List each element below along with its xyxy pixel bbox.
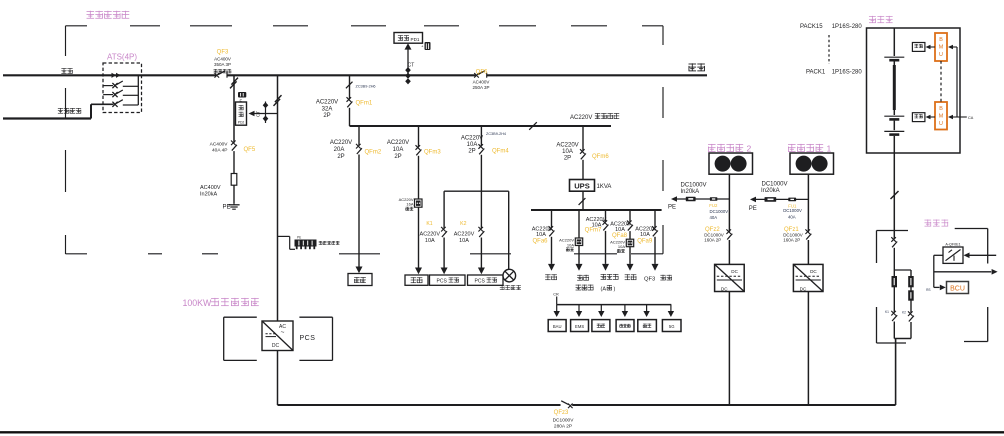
svg-text:F: F (240, 99, 243, 104)
svg-text:K2: K2 (902, 311, 906, 315)
svg-text:2: 2 (747, 143, 752, 153)
svg-text:AC400V: AC400V (210, 142, 229, 148)
svg-text:U: U (939, 52, 943, 58)
svg-text:A-QF0E1: A-QF0E1 (945, 242, 960, 246)
svg-text:AC220V: AC220V (461, 135, 483, 141)
svg-text:DC: DC (272, 343, 280, 349)
svg-text:10A: 10A (562, 149, 573, 155)
svg-text:QFm1: QFm1 (356, 101, 373, 107)
svg-text:RS: RS (926, 288, 930, 292)
svg-text:DC1000V: DC1000V (762, 182, 788, 188)
svg-text:DC1000V: DC1000V (553, 417, 575, 423)
svg-text:QF6: QF6 (476, 69, 488, 75)
svg-text:10A: 10A (393, 147, 404, 153)
svg-text:DC: DC (800, 286, 807, 291)
svg-text:40A 4P: 40A 4P (212, 147, 227, 153)
svg-text:QFm2: QFm2 (365, 149, 382, 155)
svg-text:10A: 10A (425, 238, 435, 244)
svg-text:1P16S-280: 1P16S-280 (832, 24, 863, 30)
svg-text:QFa8: QFa8 (612, 233, 628, 239)
svg-text:DC: DC (810, 269, 817, 274)
svg-text:32A: 32A (322, 107, 333, 113)
svg-text:FU2: FU2 (709, 203, 718, 208)
svg-text:10A: 10A (467, 142, 478, 148)
svg-text:AC220V: AC220V (556, 142, 578, 148)
svg-text:AC220V: AC220V (316, 100, 338, 106)
svg-text:EMS: EMS (575, 324, 584, 329)
svg-text:In20kA: In20kA (761, 188, 780, 194)
svg-text:10A: 10A (640, 232, 650, 238)
svg-text:PACK15: PACK15 (800, 24, 823, 30)
svg-text:DC1000V: DC1000V (681, 183, 707, 189)
svg-text:QFa6: QFa6 (532, 238, 548, 244)
svg-text:QFz3: QFz3 (554, 410, 569, 416)
svg-text:AC220V: AC220V (387, 140, 409, 146)
svg-text:250A 3P: 250A 3P (472, 85, 489, 90)
svg-text:AC220V: AC220V (420, 232, 441, 238)
svg-text:K1: K1 (885, 310, 889, 314)
svg-text:PACK1: PACK1 (806, 70, 826, 76)
svg-text:2P: 2P (323, 113, 330, 119)
svg-text:QFm7: QFm7 (585, 228, 602, 234)
svg-text:CT: CT (256, 111, 261, 117)
svg-text:100KW: 100KW (183, 298, 213, 308)
svg-text:(A: (A (601, 286, 607, 292)
svg-text:DC1000V: DC1000V (783, 208, 802, 213)
svg-text:K1: K1 (426, 221, 432, 227)
svg-text:DC: DC (721, 286, 728, 291)
svg-text:UPS: UPS (574, 182, 590, 191)
svg-text:PD1: PD1 (411, 37, 420, 42)
svg-text:AC220V: AC220V (330, 140, 352, 146)
svg-text:AC220V: AC220V (454, 232, 475, 238)
svg-text:AC220V: AC220V (570, 115, 592, 121)
svg-text:QF3: QF3 (217, 50, 229, 56)
svg-text:40A: 40A (788, 215, 796, 220)
svg-text:QFm6: QFm6 (592, 154, 609, 160)
svg-text:160A 2P: 160A 2P (704, 238, 721, 243)
svg-text:2P: 2P (337, 154, 344, 160)
svg-text:ATS(4P): ATS(4P) (107, 53, 137, 62)
svg-text:AC400V: AC400V (473, 80, 490, 85)
svg-text:~: ~ (281, 329, 285, 336)
svg-text:PCS: PCS (475, 278, 486, 284)
svg-text:PCS: PCS (300, 335, 316, 342)
svg-text:PD2: PD2 (238, 120, 245, 124)
svg-text:2P: 2P (468, 149, 475, 155)
svg-text:2P: 2P (564, 156, 571, 162)
svg-text:20A: 20A (334, 147, 345, 153)
svg-text:10A: 10A (459, 238, 469, 244)
svg-text:QFm4: QFm4 (492, 149, 509, 155)
svg-text:K2: K2 (460, 221, 466, 227)
svg-text:PE: PE (749, 206, 757, 212)
svg-text:AC400V: AC400V (200, 185, 221, 191)
svg-text:CT: CT (408, 63, 415, 69)
svg-text:M: M (939, 45, 944, 51)
svg-text:350A 3P: 350A 3P (214, 62, 231, 67)
svg-text:1: 1 (827, 143, 832, 153)
svg-text:DC1000V: DC1000V (710, 209, 729, 214)
svg-text:40A: 40A (710, 215, 718, 220)
svg-text:PCS: PCS (437, 278, 448, 284)
svg-text:ZC3B9-2H4: ZC3B9-2H4 (486, 132, 506, 136)
svg-text:10A: 10A (536, 232, 546, 238)
svg-text:PE: PE (297, 235, 301, 239)
svg-text:160A 2P: 160A 2P (783, 237, 800, 242)
svg-text:B: B (939, 37, 943, 43)
svg-text:PE: PE (668, 205, 676, 211)
svg-text:ZC3B9-2H6: ZC3B9-2H6 (356, 84, 376, 88)
svg-text:QFm3: QFm3 (424, 149, 441, 155)
svg-text:AC400V: AC400V (214, 57, 231, 62)
svg-text:QFa9: QFa9 (637, 239, 653, 245)
svg-text:BAU: BAU (553, 324, 562, 329)
svg-text:10A: 10A (618, 244, 625, 249)
svg-text:16A: 16A (406, 202, 413, 207)
svg-text:5G: 5G (669, 324, 675, 329)
svg-text:2P: 2P (394, 154, 401, 160)
svg-text:): ) (614, 286, 616, 292)
svg-text:BCU: BCU (950, 286, 965, 293)
svg-text:1P16S-280: 1P16S-280 (832, 70, 863, 76)
svg-text:DC: DC (731, 269, 738, 274)
svg-text:B: B (939, 106, 943, 112)
svg-text:1KVA: 1KVA (597, 184, 612, 190)
svg-text:QF3: QF3 (644, 277, 655, 283)
svg-text:In20kA: In20kA (200, 191, 217, 197)
svg-text:QF5: QF5 (244, 147, 256, 153)
svg-text:10A: 10A (567, 242, 574, 247)
svg-text:M: M (939, 114, 944, 120)
svg-text:U: U (939, 121, 943, 127)
svg-text:CR: CR (553, 293, 559, 297)
svg-text:CA: CA (968, 116, 974, 120)
svg-text:280A 2P: 280A 2P (554, 423, 572, 429)
svg-text:In20kA: In20kA (681, 189, 700, 195)
svg-text:10A: 10A (615, 227, 625, 233)
